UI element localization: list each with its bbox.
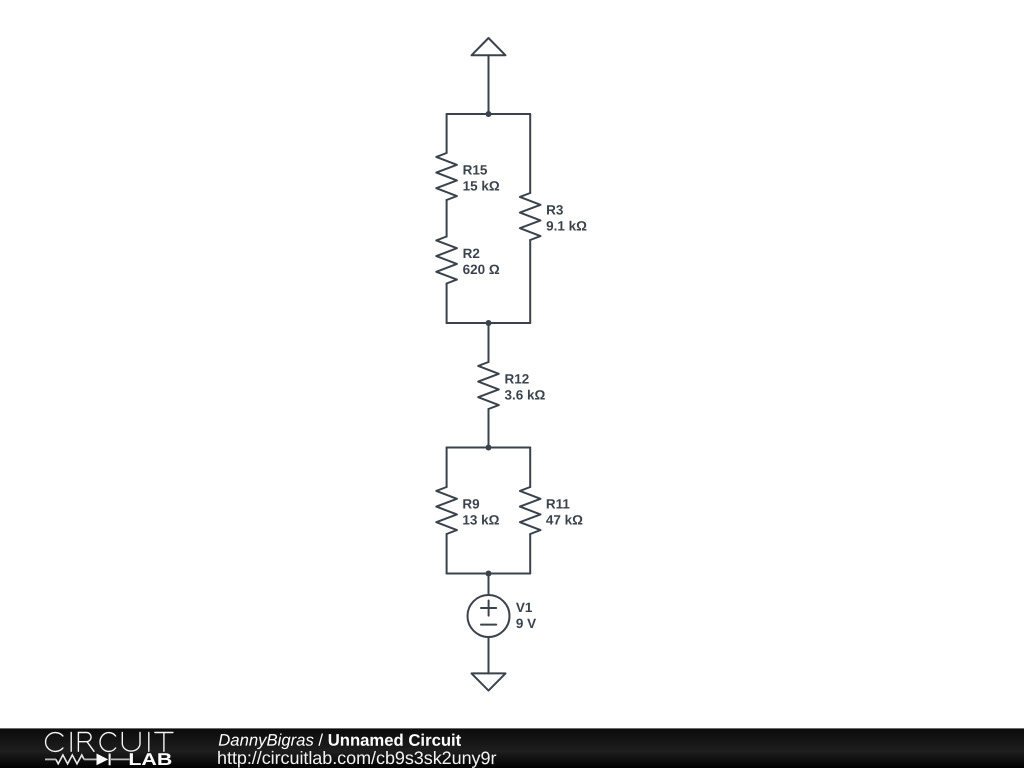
svg-text:R15: R15 — [463, 162, 488, 177]
svg-text:http://circuitlab.com/cb9s3sk2: http://circuitlab.com/cb9s3sk2uny9r — [217, 748, 496, 768]
wire node to V1 — [488, 574, 490, 596]
svg-text:9 V: 9 V — [516, 616, 536, 631]
wire lower left branch bottom lead — [446, 534, 448, 574]
svg-text:9.1 kΩ: 9.1 kΩ — [546, 219, 587, 234]
wire V1 to ground — [488, 637, 490, 673]
voltage source V1 body — [468, 595, 510, 637]
power supply symbol VCC — [472, 38, 506, 55]
wire lower box bottom edge — [447, 573, 531, 575]
wire lower right branch top lead — [529, 448, 531, 488]
wire upper left branch bottom lead — [446, 284, 448, 324]
V1 plus terminal mark — [481, 601, 496, 616]
wire upper box top edge — [447, 113, 531, 115]
wire upper left branch top lead — [446, 114, 448, 153]
logo diode — [97, 754, 111, 766]
wire between R15 and R2 — [446, 200, 448, 237]
wire lower left branch top lead — [446, 448, 448, 488]
wire upper right branch bottom lead — [529, 240, 531, 323]
resistor R15 — [436, 153, 457, 200]
resistor R3 — [520, 193, 541, 240]
resistor R11 — [520, 487, 541, 534]
svg-text:13 kΩ: 13 kΩ — [462, 512, 499, 527]
wire node to R12 — [488, 323, 490, 362]
svg-text:DannyBigras / Unnamed Circuit: DannyBigras / Unnamed Circuit — [218, 731, 461, 750]
svg-text:3.6 kΩ: 3.6 kΩ — [504, 387, 545, 402]
svg-text:R3: R3 — [546, 203, 564, 218]
logo word CIRCUIT — [46, 733, 173, 752]
svg-text:V1: V1 — [516, 600, 533, 615]
wire power to node — [488, 55, 490, 114]
node bottom of lower box — [486, 571, 492, 577]
resistor R9 — [436, 487, 457, 534]
svg-text:15 kΩ: 15 kΩ — [463, 178, 500, 193]
logo resistor-diode line — [45, 755, 130, 764]
resistor R2 — [436, 237, 457, 284]
svg-text:LAB: LAB — [128, 750, 172, 768]
wire lower box top edge — [447, 447, 531, 449]
svg-text:620 Ω: 620 Ω — [463, 262, 500, 277]
node bottom of upper box — [486, 320, 492, 326]
wire lower right branch bottom lead — [529, 534, 531, 574]
wire upper box bottom edge — [447, 322, 531, 324]
resistor R12 — [478, 362, 499, 409]
node top of lower box — [486, 445, 492, 451]
svg-text:R11: R11 — [546, 497, 571, 512]
svg-text:R12: R12 — [504, 371, 529, 386]
ground symbol — [472, 673, 506, 690]
svg-text:R9: R9 — [462, 496, 479, 511]
node top of upper box — [486, 111, 492, 117]
svg-text:R2: R2 — [463, 246, 480, 261]
V1 minus terminal mark — [481, 624, 496, 626]
wire R12 to lower box — [488, 409, 490, 448]
wire upper right branch top lead — [529, 114, 531, 193]
svg-text:47 kΩ: 47 kΩ — [546, 513, 583, 528]
footer bar — [0, 728, 1024, 768]
